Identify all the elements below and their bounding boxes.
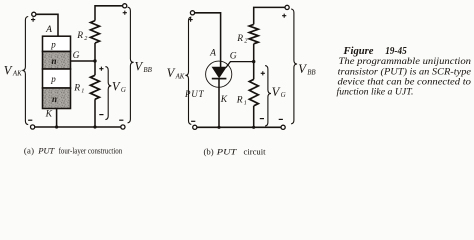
p-layer 1 (a) [43,36,71,51]
n-layer 1 (a) [43,52,71,70]
brace VG (a) [105,67,111,120]
svg-text:circuit: circuit [244,146,267,156]
PUT cathode bar (b) [212,78,227,80]
svg-text:G: G [73,51,80,61]
label R2 (a) [76,31,87,42]
svg-text:2: 2 [244,38,247,45]
bottom rail (a) [35,126,121,128]
caption (b) [204,146,267,156]
svg-text:PUT: PUT [184,89,204,99]
PUT gate lead (b) [226,62,254,68]
bottom rail (b) [197,126,281,128]
terminal minus bottom-right (b) [279,119,286,129]
wire VBB top to R2 (b) [254,7,285,24]
svg-text:A: A [45,25,52,35]
svg-text:R: R [236,34,243,44]
terminal minus bottom-left (a) [28,120,35,129]
svg-text:AK: AK [175,74,185,81]
label VBB (b) [298,62,316,76]
svg-text:1: 1 [81,87,84,94]
svg-text:four-layer construction: four-layer construction [59,146,123,156]
polarity minus VG (a) [99,114,103,116]
PUT anode triangle (b) [212,67,226,77]
junction R1-rail (b) [252,126,255,129]
svg-text:(b): (b) [204,146,214,156]
svg-text:19-45: 19-45 [385,46,407,57]
svg-text:p: p [50,74,56,84]
wire gate G (a) [71,60,96,62]
wire anode to stack (a) [36,14,58,36]
junction K-rail (a) [55,125,58,128]
svg-text:function like a UJT.: function like a UJT. [337,86,414,97]
polarity minus VG (b) [260,118,264,120]
brace VBB (a) [128,7,134,123]
svg-text:A: A [209,49,216,59]
svg-text:n: n [52,94,57,104]
junction gate (a) [93,59,96,62]
wire R2 to gate junction (a) [94,43,96,61]
label VAK (a) [4,63,22,77]
wire anode to PUT (b) [195,13,221,67]
svg-text:V: V [298,62,307,76]
svg-text:p: p [50,39,56,49]
terminal minus bottom-left (b) [191,121,197,129]
wire R2 to gate junction (b) [253,44,255,62]
n-layer 2 (a) [43,88,71,109]
terminal anode + (b) [189,11,195,22]
svg-text:BB: BB [143,67,152,74]
wire cathode to rail (b) [218,79,220,128]
label VAK (b) [167,66,185,80]
svg-text:BB: BB [307,70,316,77]
PUT envelope circle (b) [206,61,232,87]
label R2 (b) [236,34,247,45]
svg-text:G: G [121,87,126,94]
svg-text:G: G [230,51,237,61]
brace VAK (b) [185,17,191,124]
label R1 (b) [236,96,247,107]
svg-text:n: n [51,56,56,66]
junction K-rail (b) [217,126,220,129]
terminal VBB + (b) [282,5,289,17]
svg-text:G: G [281,92,286,99]
p-layer 2 (a) [43,69,71,88]
resistor R1 (a) [90,61,99,127]
svg-text:AK: AK [12,71,22,78]
terminal minus bottom-right (a) [119,120,125,129]
svg-text:(a): (a) [24,146,34,156]
svg-text:K: K [45,109,53,119]
figure number Figure 19-45 [342,46,406,57]
brace VBB (b) [291,9,297,124]
svg-text:2: 2 [84,35,87,42]
svg-text:Figure: Figure [342,46,374,57]
wire cathode to rail (a) [56,109,58,128]
svg-text:K: K [220,95,228,105]
svg-text:V: V [4,63,13,77]
junction gate (b) [252,60,255,63]
terminal VBB + (a) [123,4,127,15]
label R1 (a) [73,84,84,95]
brace VG (b) [265,66,271,126]
svg-text:R: R [236,96,243,106]
label VG (a) [112,80,126,94]
svg-text:R: R [76,31,83,41]
polarity plus VG (a) [99,67,103,71]
junction R1-rail (a) [93,125,96,128]
resistor R2 (b) [249,24,258,43]
brace VAK (a) [22,17,28,125]
svg-text:1: 1 [244,99,247,106]
resistor R1 (b) [249,62,258,128]
svg-text:PUT: PUT [37,146,55,156]
terminal anode + (a) [31,12,36,22]
label VBB (a) [135,60,153,74]
caption (a) [24,146,123,156]
svg-text:PUT: PUT [216,146,238,156]
wire VBB top to R2 (a) [95,6,123,21]
figure caption text [337,56,472,97]
polarity plus VG (b) [261,71,265,75]
label VG (b) [272,85,286,99]
resistor R2 (a) [91,21,100,43]
svg-text:R: R [73,84,80,94]
